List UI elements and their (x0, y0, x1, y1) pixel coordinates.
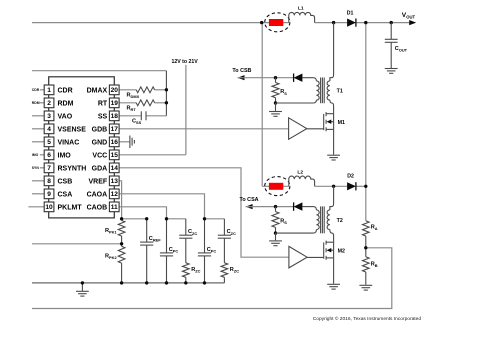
wire: top rail L1 to D1 (315, 22, 348, 24)
svg-text:14: 14 (111, 165, 119, 172)
svg-text:8: 8 (47, 178, 51, 185)
wire: RPK2 to ground bus (121, 263, 123, 283)
wire: PKLMT divider tap (32, 243, 122, 245)
wire: output rail vertical to RA (365, 23, 367, 221)
pin 1 box (44, 85, 54, 95)
svg-text:RZC: RZC (230, 267, 239, 274)
pin 9 box (44, 189, 54, 199)
arrow To CSB (238, 75, 245, 80)
CT2 dashed highlight ellipse (265, 177, 290, 196)
svg-text:20: 20 (111, 87, 119, 94)
svg-text:SYN: SYN (32, 166, 40, 170)
node dot CPC1 bus (165, 281, 168, 284)
arrow To CSA (246, 204, 253, 209)
svg-text:15: 15 (111, 152, 119, 159)
resistor RS2 (275, 207, 277, 212)
node dot CAOA rail (203, 217, 206, 220)
wire: CAOA pin to compensation (119, 194, 204, 219)
transistor M1 (324, 112, 334, 131)
svg-text:L1: L1 (298, 6, 304, 12)
wire: CSB sense line (238, 77, 294, 79)
diode CT2 rectifier (294, 202, 303, 210)
node dot input CT1 (260, 21, 263, 24)
node dot CREF bus (145, 281, 148, 284)
svg-text:17: 17 (111, 126, 119, 133)
svg-text:DMAX: DMAX (87, 87, 108, 94)
resistor RZC1 (183, 263, 190, 278)
svg-text:RPK2: RPK2 (105, 254, 117, 261)
svg-text:RT: RT (98, 100, 108, 107)
svg-text:CAOA: CAOA (87, 191, 108, 198)
wire: stub to pin 4 VSENSE (32, 128, 44, 130)
node dot Rs1 bottom (274, 101, 277, 104)
diode D2 (347, 182, 356, 190)
node dot CAOB rail (165, 217, 168, 220)
svg-text:RS: RS (280, 89, 287, 96)
svg-text:VAO: VAO (58, 113, 73, 120)
svg-text:IMO: IMO (32, 153, 39, 157)
pin 2 box (44, 98, 54, 108)
svg-text:13: 13 (111, 178, 119, 185)
svg-text:RSYNTH: RSYNTH (58, 165, 87, 172)
wire: diode to T1 sense winding (302, 77, 313, 79)
capacitor COUT plates (385, 39, 398, 42)
CT1 dashed highlight ellipse (265, 13, 290, 32)
ground at GND pin (sideways) (130, 136, 135, 149)
capacitor CPC1 plates (160, 253, 173, 256)
svg-text:Copyright © 2016, Texas Instru: Copyright © 2016, Texas Instruments Inco… (313, 315, 422, 322)
pin 7 box (44, 163, 54, 173)
pin 4 box (44, 124, 54, 134)
pin 3 box (44, 111, 54, 121)
node dot DMAX rail (165, 88, 168, 91)
svg-text:CREF: CREF (149, 236, 161, 243)
svg-text:CSB: CSB (58, 178, 73, 185)
svg-text:5: 5 (47, 139, 51, 146)
svg-text:IMO: IMO (58, 152, 72, 159)
wire: DMAX pin to RDMX (119, 89, 136, 91)
svg-text:CAOB: CAOB (87, 204, 108, 211)
wire: M2 source down (333, 258, 335, 284)
svg-text:To CSA: To CSA (240, 197, 259, 203)
node dot D2 output (364, 185, 367, 188)
svg-text:CZC: CZC (188, 229, 197, 236)
svg-text:RDM: RDM (32, 101, 40, 105)
wire: short stub to pin 6 IMO (40, 154, 44, 156)
svg-text:L2: L2 (297, 169, 303, 175)
svg-text:RS: RS (280, 218, 287, 225)
svg-text:VCC: VCC (92, 152, 107, 159)
diode CT1 rectifier (294, 74, 303, 82)
wire: upper-left rail to RDMX/RRT (32, 70, 166, 72)
svg-text:CSA: CSA (58, 191, 73, 198)
svg-text:RB: RB (371, 261, 378, 268)
svg-text:RPK1: RPK1 (105, 228, 117, 235)
node dot D1 output (364, 21, 367, 24)
wire: VCC supply drop 12V-21V (185, 65, 187, 155)
capacitor COUT branch (390, 23, 392, 69)
wire: T2 return to Rs2 (276, 232, 314, 234)
wire: short stub to pin 2 RDM (40, 102, 44, 104)
inductor L1 (289, 12, 315, 22)
wire: CAOB rail to CZC1 (167, 218, 186, 220)
wire: ground bus (32, 282, 224, 284)
transistor M2 (324, 241, 334, 260)
wire: CSA sense line (246, 206, 294, 208)
capacitor CPC2 branch (204, 219, 206, 283)
transformer T2 core (321, 206, 325, 233)
wire: stub to pin 10 PKLMT (28, 206, 44, 208)
svg-text:11: 11 (111, 204, 118, 211)
wire: RT pin to RRT (119, 102, 136, 104)
svg-text:T1: T1 (337, 89, 343, 95)
wire: VREF rail to CREF (122, 218, 147, 220)
pin 10 box (44, 202, 54, 212)
capacitor CZC2 plates (218, 235, 231, 238)
pin 8 box (44, 176, 54, 186)
wire: driver B to M2 gate (307, 256, 324, 258)
ground Rs2 (275, 233, 277, 240)
transformer T1 core (321, 78, 325, 104)
wire: VCC pin wire (119, 154, 186, 156)
transformer T1 main winding (330, 23, 334, 81)
svg-text:RRT: RRT (127, 106, 137, 113)
ground COUT (385, 69, 398, 74)
pin 5 box (44, 137, 54, 147)
ground M2 (327, 284, 340, 289)
transformer T2 sense winding (313, 207, 316, 210)
node dot bus ground (81, 281, 84, 284)
svg-text:RZC: RZC (191, 267, 200, 274)
pin 14 box (109, 163, 119, 173)
svg-text:D1: D1 (347, 10, 354, 16)
wire: RZC2 to bus end (223, 277, 225, 283)
svg-text:3: 3 (47, 113, 51, 120)
op-amp gate driver A (289, 118, 307, 140)
svg-text:6: 6 (47, 152, 51, 159)
svg-text:CDR: CDR (32, 88, 40, 92)
resistor RDMX (136, 87, 154, 93)
wire: T1 return to Rs1 (276, 102, 314, 104)
svg-text:GND: GND (92, 139, 108, 146)
node dot RA-RB tap (364, 246, 367, 249)
wire: SS pin to CSS (119, 115, 141, 117)
inductor L2 (289, 176, 315, 186)
wire: RZC1 to bus (185, 277, 187, 283)
node dot L1-T1 junction (332, 21, 335, 24)
wire: phase-2 rail D2 to output drop (356, 185, 366, 187)
svg-text:16: 16 (111, 139, 119, 146)
wire: stub to pin 8 CSB (32, 180, 44, 182)
ground main bus symbol (81, 283, 83, 291)
wire: stub to pin 3 VAO (32, 115, 44, 117)
node dot PKLMT tap (120, 242, 123, 245)
capacitor CZC2 branch (223, 219, 225, 263)
svg-text:1: 1 (47, 87, 51, 94)
wire: short stub to pin 7 RSYNTH (40, 167, 44, 169)
pin 16 box (109, 137, 119, 147)
resistor RZC2 (221, 263, 228, 278)
resistor RPK2 (118, 246, 125, 263)
svg-text:CPC: CPC (207, 247, 217, 254)
node dot L2-T2 junction (332, 185, 335, 188)
svg-text:D2: D2 (347, 174, 354, 180)
capacitor CZC1 branch (185, 219, 187, 263)
capacitor CSS (141, 111, 146, 120)
node dot CREF rail (145, 217, 148, 220)
node dot VREF rail (120, 217, 123, 220)
transformer T1 sense winding (313, 78, 316, 81)
resistor RS1 (275, 78, 277, 83)
svg-text:VSENSE: VSENSE (58, 126, 87, 133)
wire: RA to RB (365, 236, 367, 257)
svg-text:2: 2 (47, 100, 51, 107)
wire: GDA to driver B (119, 168, 289, 257)
svg-text:4: 4 (47, 126, 51, 133)
wire: VREF pin down to divider (119, 181, 122, 221)
svg-text:12V to 21V: 12V to 21V (172, 59, 199, 65)
wire: RPK1 to RPK2 (121, 236, 123, 246)
svg-text:7: 7 (47, 165, 51, 172)
wire: GDB to driver A (119, 128, 289, 130)
svg-text:M2: M2 (338, 248, 345, 254)
wire: phase-2 rail L2 to D2 (315, 185, 348, 187)
current transformer CT1 primary (red) (269, 19, 283, 26)
pin 13 box (109, 176, 119, 186)
node dot CPC2 bus (203, 281, 206, 284)
svg-text:VREF: VREF (89, 178, 108, 185)
node dot Rs2 bottom (274, 231, 277, 234)
wire: CAOA rail to CZC2 (205, 218, 225, 220)
svg-text:CSS: CSS (132, 119, 142, 126)
svg-text:12: 12 (111, 191, 119, 198)
svg-text:To CSB: To CSB (232, 68, 251, 74)
pin 6 box (44, 150, 54, 160)
op-amp gate driver B (289, 246, 307, 268)
pin 18 box (109, 111, 119, 121)
node dot Rs1 top (274, 76, 277, 79)
svg-text:RDMX: RDMX (127, 93, 140, 100)
ground RB (359, 285, 372, 290)
diode D1 (347, 19, 356, 27)
resistor RB (363, 257, 370, 272)
wire: CAOB pin to compensation (119, 207, 166, 219)
svg-text:RA: RA (371, 224, 378, 231)
pin 11 box (109, 202, 119, 212)
svg-text:GDB: GDB (92, 126, 108, 133)
node dot RZC1 bus (184, 281, 187, 284)
pin 19 box (109, 98, 119, 108)
wire: stub to pin 9 CSA (32, 193, 44, 195)
wire: input drop to phase 2 (261, 23, 263, 187)
node dot RPK2 bus (120, 281, 123, 284)
ground M1 (327, 155, 340, 160)
svg-text:19: 19 (111, 100, 119, 107)
svg-text:CPC: CPC (169, 247, 179, 254)
svg-text:SS: SS (98, 113, 108, 120)
svg-text:COUT: COUT (395, 46, 408, 53)
svg-text:VINAC: VINAC (58, 139, 80, 146)
wire: short stub to pin 1 CDR (40, 89, 44, 91)
svg-text:PKLMT: PKLMT (58, 204, 83, 211)
node dot Rs2 top (274, 205, 277, 208)
node dot Cout (390, 21, 393, 24)
svg-text:RDM: RDM (58, 100, 74, 107)
pin 17 box (109, 124, 119, 134)
node dot RT rail (165, 101, 168, 104)
svg-text:10: 10 (45, 204, 53, 211)
transformer T2 main winding (330, 186, 334, 210)
capacitor CREF branch (146, 219, 148, 283)
wire: RRT to rail (155, 102, 167, 104)
capacitor CZC1 plates (179, 235, 192, 238)
wire: stub to pin 5 VINAC (32, 141, 44, 143)
capacitor CPC1 branch (166, 219, 168, 283)
capacitor CREF plates (140, 242, 153, 245)
svg-text:18: 18 (111, 113, 119, 120)
wire: RB to ground (365, 272, 367, 285)
pin 12 box (109, 189, 119, 199)
svg-text:9: 9 (47, 191, 51, 198)
svg-text:M1: M1 (338, 120, 345, 126)
wire: RDMX to rail (155, 89, 167, 91)
wire: VSENSE feedback from RA/RB node (32, 248, 392, 309)
wire: top rail D1 to Cout node (356, 22, 391, 24)
current transformer CT2 primary (red) (269, 183, 283, 190)
pin 20 box (109, 85, 119, 95)
wire: vertical RDMX/RRT/CSS common (165, 71, 167, 116)
pin 15 box (109, 150, 119, 160)
svg-text:T2: T2 (337, 218, 343, 224)
svg-text:CDR: CDR (58, 87, 73, 94)
resistor RPK1 (118, 221, 125, 237)
output arrow Vout (409, 20, 416, 25)
wire: phase-2 input segment (262, 185, 289, 187)
op IC U1 UCC28070 body (49, 77, 115, 218)
wire: M1 source down (333, 129, 335, 154)
wire: GND pin to ground (119, 141, 130, 143)
resistor RRT (136, 100, 154, 106)
wire: driver A to M1 gate (307, 128, 324, 130)
wire: CSS to rail (146, 115, 166, 117)
svg-text:GDA: GDA (92, 165, 108, 172)
wire: top rail Cout node to Vout arrow (391, 22, 410, 24)
wire: main input rail top-left (32, 22, 289, 24)
wire: diode to T2 sense winding (302, 206, 313, 208)
ground Rs1 (275, 103, 277, 111)
capacitor CPC2 plates (198, 253, 211, 256)
resistor RA (363, 221, 370, 236)
svg-text:CZC: CZC (227, 229, 236, 236)
